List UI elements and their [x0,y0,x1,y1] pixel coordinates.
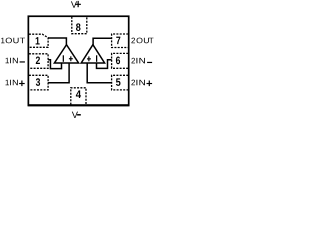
label 2IN+ plus sign [147,83,153,84]
label V+ [71,1,77,7]
label 1IN- dash [20,61,25,62]
pin 4 box [71,88,86,105]
op-amp A plus sign [69,58,73,59]
wire pin1 to op-amp A output [48,38,66,46]
pin 5 number [116,78,121,86]
pin 7 number [116,37,120,44]
wire pin2 to op-amp A inverting input [48,60,61,69]
label 2OUT [131,38,153,44]
label 2IN- dash [147,62,152,63]
pin 5 box [112,75,129,90]
label 1IN+ [6,80,18,86]
pin 1 box [29,34,48,47]
pin 2 box [29,54,48,69]
label V+ plus sign [75,4,81,5]
pin 3 number [36,78,40,86]
pin 1 number [36,37,40,44]
op-amp A inverting input bar [63,55,64,62]
op-amp B inverting input bar [96,55,97,62]
label 1OUT [1,38,25,44]
pin 8 number [76,23,81,31]
label 1IN- [6,58,18,64]
IC package outline U1 [28,16,128,105]
pin 3 box [29,75,48,90]
label 2IN+ [131,80,145,86]
op-amp B plus sign [87,58,91,59]
label 2IN- [131,58,145,64]
pin 8 box [72,17,87,34]
wire op-amp B non-inverting input to pin5 [87,63,111,83]
op-amp A triangle [54,45,78,63]
wire op-amp B inverting input to pin6 [97,60,112,69]
IC bottom edge [28,104,130,106]
pin 6 box [112,53,129,68]
pin 2 number [36,56,40,64]
label V- dash [77,114,81,116]
wire pin3 to op-amp A non-inverting input [48,63,69,83]
pin 6 number [116,57,120,65]
pin 7 box [112,34,129,48]
op-amp B triangle [81,45,104,63]
label V- [72,112,78,118]
label 1IN+ plus sign [19,83,25,84]
pin 4 number [76,90,81,98]
wire op-amp B output to pin7 [93,38,112,45]
